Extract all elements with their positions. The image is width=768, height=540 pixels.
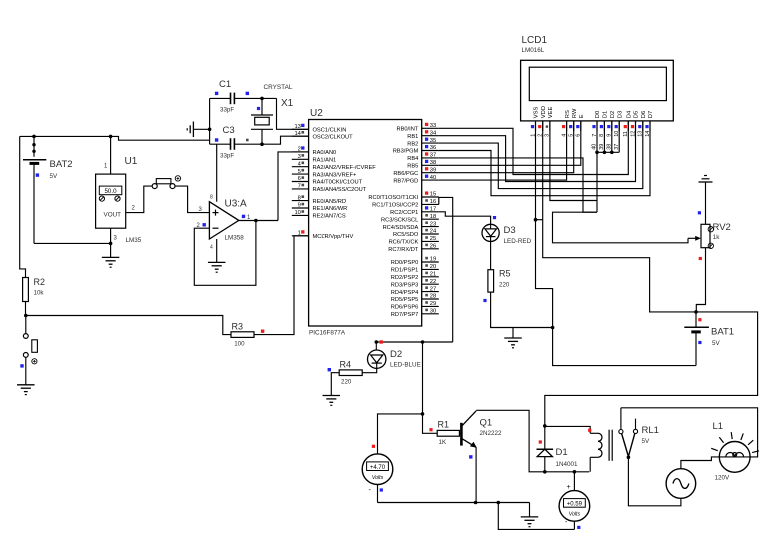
relay core — [608, 430, 610, 461]
lamp L1 — [719, 442, 750, 473]
svg-text:40: 40 — [430, 175, 436, 181]
svg-text:CRYSTAL: CRYSTAL — [264, 84, 293, 91]
wire: RC2 to D3 — [439, 212, 491, 225]
AC source — [666, 469, 696, 499]
svg-text:RC1/T1OSI/CCP2: RC1/T1OSI/CCP2 — [372, 203, 418, 209]
svg-text:RL1: RL1 — [642, 425, 659, 436]
svg-text:27: 27 — [430, 286, 436, 292]
LCD pin 6 E — [576, 114, 585, 137]
RV2 wiper arrow — [695, 236, 701, 241]
svg-text:100: 100 — [234, 341, 245, 348]
svg-text:8: 8 — [210, 195, 213, 201]
svg-text:25: 25 — [430, 236, 436, 242]
U2 right pin 25 — [389, 236, 439, 246]
wire: junction down to BAT1 bottom rail — [553, 328, 696, 366]
svg-text:33: 33 — [430, 123, 436, 129]
svg-text:RE0/AN5/RD: RE0/AN5/RD — [313, 199, 347, 205]
svg-text:220: 220 — [341, 379, 352, 386]
U2 right pin 26 — [388, 244, 439, 254]
wire: RB5 to LCD E — [439, 121, 581, 165]
node: VM2 return junction — [497, 501, 501, 505]
wire: D2 top rail — [376, 341, 452, 343]
svg-text:19: 19 — [430, 257, 436, 263]
push switch (left) — [23, 334, 37, 364]
svg-text:RD1/PSP1: RD1/PSP1 — [391, 268, 419, 274]
svg-text:U3:A: U3:A — [225, 199, 248, 210]
wire: AC top to lamp — [681, 457, 719, 469]
U2 right pin 24 — [393, 229, 439, 239]
svg-text:BAT2: BAT2 — [50, 159, 73, 170]
svg-text:37: 37 — [430, 153, 436, 159]
svg-text:E: E — [579, 114, 585, 118]
U2 left pin 9 — [292, 203, 347, 213]
voltmeter VM2 — [559, 491, 590, 522]
node: R5 ground junction — [551, 326, 555, 330]
svg-text:50.0: 50.0 — [104, 188, 117, 195]
transistor Q1 2N2222 — [459, 411, 476, 503]
svg-text:1K: 1K — [439, 439, 447, 446]
svg-text:RB6/PGC: RB6/PGC — [393, 171, 418, 177]
LCD pin 8 D1 — [599, 111, 608, 137]
U2 left pin 3 — [292, 154, 336, 164]
node: C1/C3 left junction — [208, 128, 212, 132]
svg-text:RE2/AN7/CS: RE2/AN7/CS — [313, 214, 346, 220]
wire: junction to switch — [25, 316, 27, 334]
svg-text:38: 38 — [430, 160, 436, 166]
svg-text:29: 29 — [430, 301, 436, 307]
U2 left pin 1 — [292, 230, 354, 240]
svg-text:D3: D3 — [617, 111, 623, 118]
U2 right pin 19 — [391, 257, 439, 267]
node: bus D2 — [610, 151, 614, 155]
svg-text:14: 14 — [294, 131, 301, 137]
wire: left rail down to R2 — [20, 136, 26, 277]
svg-text:5V: 5V — [642, 438, 651, 445]
svg-text:36: 36 — [430, 145, 436, 151]
wire: RC1 to D2 net — [439, 197, 453, 342]
node: D1 top — [543, 424, 547, 428]
svg-text:28: 28 — [430, 294, 436, 300]
resistor R1 — [437, 430, 459, 436]
svg-text:RC2/CCP1: RC2/CCP1 — [390, 210, 418, 216]
ground (emitter rail) — [529, 503, 531, 517]
svg-text:7: 7 — [298, 184, 301, 190]
opamp V- wire to ground — [216, 239, 218, 262]
svg-text:+0.59: +0.59 — [567, 502, 583, 508]
svg-text:RD0/PSP0: RD0/PSP0 — [391, 260, 419, 266]
LCD pin 9 D2 — [607, 111, 616, 137]
power flag (RV2 top) — [699, 176, 713, 183]
resistor R4 — [339, 370, 362, 376]
svg-text:OSC1/CLKIN: OSC1/CLKIN — [313, 128, 347, 134]
voltmeter VM1 — [362, 454, 393, 485]
U2 right pin 21 — [391, 272, 439, 282]
U2 right pin 33 — [396, 123, 438, 133]
svg-text:10: 10 — [294, 210, 300, 216]
wire: R2 to junction — [25, 302, 27, 316]
svg-text:LCD1: LCD1 — [522, 35, 548, 46]
diode D1 1N4001 — [537, 426, 554, 472]
node: VM2 plus tap — [573, 470, 577, 474]
LCD pin 5 RW — [569, 108, 578, 137]
svg-text:10k: 10k — [34, 290, 45, 297]
svg-text:LM35: LM35 — [126, 237, 142, 244]
LM35 dial icons — [99, 196, 104, 201]
svg-text:RC5/SDO: RC5/SDO — [393, 232, 419, 238]
wire: emitter ground rail — [378, 502, 530, 504]
svg-text:U2: U2 — [310, 108, 323, 119]
svg-text:X1: X1 — [281, 98, 294, 109]
svg-text:30: 30 — [430, 309, 436, 315]
wire: LM35 pin3 to ground — [110, 243, 112, 257]
node: bus D0 — [595, 151, 599, 155]
svg-text:2N2222: 2N2222 — [480, 430, 503, 437]
svg-text:VDD: VDD — [541, 106, 547, 118]
wire: lamp right to relay NO — [621, 408, 758, 457]
wire: RB1 to LCD D5 — [439, 121, 636, 182]
svg-text:5V: 5V — [712, 340, 721, 347]
wire: switch to ground — [25, 357, 27, 384]
wire: drive net down to R1 — [423, 342, 438, 433]
wire: D1 top to coil top — [545, 426, 590, 433]
wire: BAT2 top rail — [20, 135, 111, 137]
display LCD1 LM016L body — [521, 60, 674, 121]
svg-text:C3: C3 — [223, 125, 235, 136]
LCD pin 7 D0 — [592, 111, 601, 137]
node: crystal top — [260, 97, 264, 101]
ground (R4) — [323, 395, 341, 397]
svg-text:R5: R5 — [499, 269, 511, 279]
ground (below left switch) — [17, 384, 35, 386]
ground (below LM35) — [102, 256, 120, 258]
svg-text:U1: U1 — [125, 156, 138, 167]
U2 right pin 22 — [391, 279, 439, 289]
svg-text:24: 24 — [430, 229, 437, 235]
LCD pin 4 RS — [561, 110, 570, 137]
wire: opamp output — [239, 220, 278, 222]
svg-text:R1: R1 — [438, 420, 450, 430]
U2 right pin 15 — [368, 191, 438, 201]
U2 left pin 2 — [292, 146, 336, 156]
LCD pin 14 D7 — [645, 111, 654, 137]
svg-text:RD4/PSP4: RD4/PSP4 — [391, 290, 419, 296]
LCD pin 13 D6 — [638, 111, 647, 137]
node: LM35 pin1 tap — [109, 135, 113, 139]
svg-text:1k: 1k — [713, 234, 721, 241]
svg-text:RE1/AN6/WR: RE1/AN6/WR — [313, 206, 348, 212]
resistor R3 — [231, 332, 254, 338]
U2 right pin 36 — [393, 145, 439, 155]
relay switch — [619, 408, 638, 457]
svg-text:3: 3 — [298, 154, 301, 160]
svg-text:20: 20 — [430, 264, 436, 270]
node: voltmeter tap — [421, 412, 425, 416]
svg-text:D4: D4 — [627, 110, 633, 118]
svg-text:D5: D5 — [634, 111, 640, 118]
wire: BAT1 plus rail — [545, 312, 758, 426]
wire: R5 to ground junction — [491, 292, 553, 327]
ground (R5 node) — [512, 328, 514, 338]
svg-text:RB2: RB2 — [407, 141, 418, 147]
U2 left pin 7 — [292, 184, 367, 194]
sensor U1 LM35 body — [96, 174, 126, 228]
svg-text:13: 13 — [294, 124, 300, 130]
LCD pin 12 D5 — [630, 111, 639, 137]
wire: R2 node to R3 — [26, 316, 231, 335]
wire: D3 to R5 — [490, 242, 492, 270]
svg-text:RB4: RB4 — [407, 156, 418, 162]
node: R2/R3 junction — [24, 314, 28, 318]
micro U2 PIC16F877A body — [309, 120, 422, 327]
svg-text:RD5/PSP5: RD5/PSP5 — [391, 297, 419, 303]
svg-text:26: 26 — [430, 244, 436, 250]
svg-text:RD2/PSP2: RD2/PSP2 — [391, 275, 419, 281]
svg-text:RD6/PSP6: RD6/PSP6 — [391, 305, 419, 311]
svg-text:LED-BLUE: LED-BLUE — [390, 362, 421, 369]
node: BAT2 top — [32, 135, 36, 139]
ground (below op-amp) — [208, 261, 226, 263]
crystal X1 — [251, 98, 273, 144]
wire: LCD VSS to ground rail — [536, 121, 553, 328]
svg-text:LM016L: LM016L — [522, 47, 545, 54]
svg-text:33pF: 33pF — [220, 153, 234, 160]
svg-text:D3: D3 — [504, 225, 516, 236]
svg-text:120V: 120V — [715, 475, 731, 482]
svg-text:RD3/PSP3: RD3/PSP3 — [391, 282, 419, 288]
push switch (signal) — [152, 176, 180, 189]
LCD pin 2 VDD — [538, 106, 547, 137]
U2 right pin 39 — [393, 167, 438, 177]
svg-text:RD7/PSP7: RD7/PSP7 — [391, 312, 419, 318]
U2 right pin 18 — [381, 214, 439, 224]
svg-text:34: 34 — [430, 130, 437, 136]
U2 right pin 28 — [391, 294, 439, 304]
LCD pin 1 VSS — [530, 106, 539, 136]
svg-text:22: 22 — [430, 279, 436, 285]
wire: RB3 to LCD D7 — [439, 121, 650, 196]
svg-text:33pF: 33pF — [220, 107, 234, 114]
wire: RV2 bottom to BAT1 — [696, 248, 705, 312]
U2 right pin 27 — [391, 286, 439, 296]
wire: BAT2 bottom to LM35 pin3 — [34, 242, 111, 244]
U2 left pin 4 — [292, 161, 376, 171]
node: crystal bottom — [260, 142, 264, 146]
node: D2 anode — [375, 340, 379, 344]
svg-text:16: 16 — [430, 199, 436, 205]
svg-text:9: 9 — [298, 203, 301, 209]
node: Q1 branch — [421, 340, 425, 344]
svg-text:RA0/AN0: RA0/AN0 — [313, 150, 337, 156]
node: relay common — [627, 456, 631, 460]
svg-text:21: 21 — [430, 272, 436, 278]
svg-text:18: 18 — [430, 214, 436, 220]
U2 right pin 35 — [407, 138, 439, 148]
svg-text:+: + — [567, 484, 571, 491]
svg-text:BAT1: BAT1 — [711, 327, 734, 338]
svg-text:VEE: VEE — [548, 106, 554, 118]
resistor R2 — [23, 278, 29, 302]
svg-text:5: 5 — [298, 169, 301, 175]
svg-text:PIC16F877A: PIC16F877A — [309, 330, 346, 337]
svg-text:R2: R2 — [34, 277, 46, 287]
svg-text:2: 2 — [298, 147, 301, 153]
wire: R4 to ground — [331, 373, 339, 396]
svg-text:RB3/PGM: RB3/PGM — [393, 149, 419, 155]
svg-text:Volts: Volts — [569, 512, 581, 518]
wire: feedback loop — [194, 221, 256, 286]
svg-text:17: 17 — [430, 207, 436, 213]
svg-text:RB0/INT: RB0/INT — [396, 127, 418, 133]
svg-text:23: 23 — [430, 221, 436, 227]
node: D1 bottom — [543, 470, 547, 474]
node: VSS tap — [534, 218, 538, 222]
node: output junction — [254, 219, 258, 223]
svg-text:15: 15 — [430, 192, 436, 198]
U2 right pin 37 — [407, 152, 439, 162]
U2 left pin 5 — [292, 169, 357, 179]
svg-text:RA5/AN4/SS/C2OUT: RA5/AN4/SS/C2OUT — [313, 187, 367, 193]
U2 left pin 8 — [292, 195, 346, 205]
svg-text:RA4/T0CKI/C1OUT: RA4/T0CKI/C1OUT — [313, 180, 363, 186]
svg-text:OSC2/CLKOUT: OSC2/CLKOUT — [313, 134, 354, 140]
lamp rays — [711, 432, 759, 452]
svg-text:D2: D2 — [390, 349, 402, 360]
node: BAT1 plus — [694, 310, 698, 314]
svg-text:D6: D6 — [641, 111, 647, 118]
relay coil RL1 — [590, 433, 602, 472]
wire: Q1 collector to D1 net — [476, 410, 589, 472]
wire: VM2 bottom — [573, 521, 575, 529]
svg-text:RB1: RB1 — [407, 134, 418, 140]
svg-text:D1: D1 — [556, 447, 568, 458]
potentiometer RV2 — [701, 224, 710, 247]
wire: RB6 to LCD RW — [439, 121, 574, 173]
LCD1 screen — [529, 67, 666, 100]
svg-text:+4.70: +4.70 — [370, 465, 386, 471]
svg-text:220: 220 — [499, 282, 510, 289]
LED D2 — [368, 342, 386, 368]
svg-text:RB7/PGD: RB7/PGD — [393, 178, 418, 184]
wire: to OSC2 pin14 — [262, 136, 309, 144]
svg-text:RA1/AN1: RA1/AN1 — [313, 158, 337, 164]
wire: relay common to AC — [628, 457, 681, 506]
svg-text:Volts: Volts — [372, 475, 384, 481]
op-amp U3:A — [209, 202, 238, 239]
svg-text:RB5: RB5 — [407, 164, 418, 170]
svg-text:RC3/SCK/SCL: RC3/SCK/SCL — [381, 217, 418, 223]
svg-text:RC4/SDI/SDA: RC4/SDI/SDA — [383, 225, 419, 231]
U2 right pin 23 — [383, 221, 439, 231]
svg-text:D2: D2 — [610, 111, 616, 118]
U2 left pin 13 — [292, 124, 347, 134]
opamp V+ wire — [216, 144, 218, 202]
svg-text:VSS: VSS — [534, 106, 540, 118]
svg-text:RV2: RV2 — [713, 222, 731, 233]
svg-text:LED-RED: LED-RED — [504, 238, 532, 245]
U2 right pin 34 — [407, 130, 439, 140]
wire: RB2 to LCD D6 — [439, 121, 643, 189]
LCD pin 11 D4 — [623, 110, 632, 137]
node: bus D1 — [603, 151, 607, 155]
wire: D2 to R4 — [362, 368, 377, 372]
U2 left pin 10 — [292, 210, 346, 220]
wire: output to RA0 — [278, 152, 309, 221]
U2 left pin 6 — [292, 176, 363, 186]
svg-text:RC7/RX/DT: RC7/RX/DT — [388, 247, 419, 253]
svg-text:D1: D1 — [603, 111, 609, 118]
svg-text:1N4001: 1N4001 — [556, 461, 579, 468]
wire: VM1 bottom — [377, 485, 379, 503]
svg-text:RA2/AN2/VREF-/CVREF: RA2/AN2/VREF-/CVREF — [313, 165, 377, 171]
U2 right pin 40 — [393, 175, 438, 185]
wire: RB0 to LCD D4 — [439, 121, 629, 175]
wire: RV2 top — [705, 182, 707, 224]
U2 left pin 14 — [292, 131, 353, 141]
node: LM35 pin3 — [109, 242, 113, 246]
RV2 dial icons — [708, 227, 713, 232]
svg-text:L1: L1 — [713, 421, 724, 432]
svg-text:RA3/AN3/VREF+: RA3/AN3/VREF+ — [313, 172, 357, 178]
wire: RB4 to LCD D0-D3 bus — [439, 158, 597, 212]
wire: switch to opamp + — [175, 186, 209, 213]
wire: left vertical C1-C3 — [209, 98, 211, 144]
svg-text:VOUT: VOUT — [104, 212, 122, 219]
wire: to OSC1 pin13 — [277, 98, 309, 129]
wire: VM2 plus — [573, 472, 575, 491]
svg-text:Q1: Q1 — [480, 418, 493, 429]
svg-text:D0: D0 — [595, 111, 601, 118]
U2 right pin 30 — [391, 309, 439, 319]
svg-text:C1: C1 — [219, 79, 231, 90]
LCD pin 10 D3 — [614, 111, 623, 137]
LCD pin 3 VEE — [545, 106, 554, 136]
battery BAT2 — [23, 136, 46, 243]
svg-text:RC6/TX/CK: RC6/TX/CK — [389, 240, 419, 246]
svg-text:4: 4 — [210, 245, 213, 251]
node: emitter junction — [474, 501, 478, 505]
U2 right pin 38 — [407, 160, 439, 170]
svg-text:1: 1 — [298, 231, 301, 237]
svg-text:6: 6 — [298, 176, 301, 182]
wire: VM2 return loop — [498, 503, 574, 530]
battery BAT1 — [684, 312, 709, 366]
wire: R3 to MCLR pin 1 — [254, 236, 309, 335]
U2 right pin 16 — [372, 199, 439, 209]
wire: tap to voltmeter1 — [378, 414, 423, 454]
capacitor C1 — [210, 93, 277, 105]
U2 right pin 29 — [391, 301, 439, 311]
svg-text:R3: R3 — [232, 322, 244, 332]
svg-text:LM358: LM358 — [225, 235, 245, 242]
wire: RB7 to LCD RS — [439, 121, 567, 180]
svg-text:MCLR/Vpp/THV: MCLR/Vpp/THV — [313, 234, 354, 240]
svg-text:RW: RW — [572, 108, 578, 118]
svg-text:5V: 5V — [50, 173, 59, 180]
capacitor C3 — [210, 138, 262, 150]
resistor R5 — [488, 270, 494, 292]
wire: VSS-VDD stub — [536, 219, 543, 221]
svg-text:39: 39 — [430, 167, 436, 173]
wire: LCD VDD to BAT1 — [543, 121, 696, 312]
U2 right pin 20 — [391, 264, 439, 274]
svg-text:RS: RS — [565, 110, 571, 118]
ground terminal (left, rotated) — [187, 122, 209, 138]
U2 right pin 17 — [390, 206, 439, 216]
LM35 display 50.0 — [99, 186, 122, 195]
LED D3 — [482, 224, 499, 241]
svg-text:R4: R4 — [340, 360, 352, 370]
wire: LCD VEE to RV2 wiper — [550, 121, 597, 201]
